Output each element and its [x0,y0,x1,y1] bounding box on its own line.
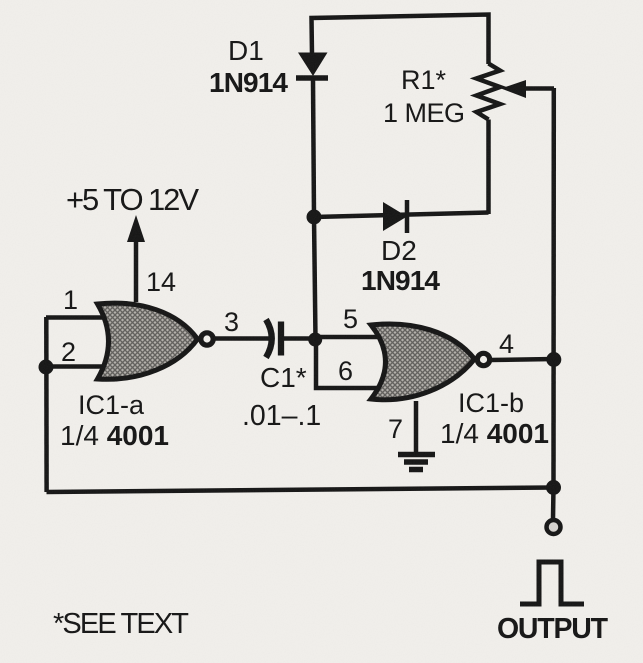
wire D1 cathode down to node A [313,80,314,217]
wire bottom feedback [47,488,555,493]
wire D2 horizontal from node A to R1 branch [314,213,489,218]
wire right vertical from wiper to output terminal [551,88,556,488]
wire gate-a output to C1 [213,336,271,341]
wire stub to output terminal [551,487,556,519]
wire C1 to node B [283,336,316,341]
wiper arrow of R1 [501,80,554,98]
diode D1 [296,53,328,79]
power arrow +5 TO 12V [127,215,145,302]
node junction dot pin2/feedback [39,360,54,375]
NOR gate IC1-b [371,324,490,400]
output terminal circle [547,520,561,534]
wire pin7 to ground [414,401,419,452]
NOR gate IC1-a [98,303,214,379]
resistor R1 (potentiometer) zigzag [477,64,501,120]
wire pin1 input [46,315,108,320]
node output junction dot (pin4) [546,352,561,367]
output pulse waveform [520,562,584,604]
scan noise overlay [0,0,1,1]
wire top rail from D1 anode to R1 top [312,15,489,65]
node bottom junction dot [546,480,561,495]
wire R1 bottom down to D2 cathode [486,120,491,215]
wire left vertical feedback [44,317,49,492]
wire pin5 input [315,335,380,340]
diode D2 [383,200,407,233]
node B junction dot [308,333,322,347]
wire pin2 input [46,364,108,369]
wire gate-b output to right vertical [490,359,554,360]
wire node A down to capacitor node [314,217,316,339]
ground [398,455,435,470]
node A junction dot (D1/D2) [307,210,322,225]
capacitor C1 [266,320,281,358]
wire node B down and to pin6 [316,339,382,388]
